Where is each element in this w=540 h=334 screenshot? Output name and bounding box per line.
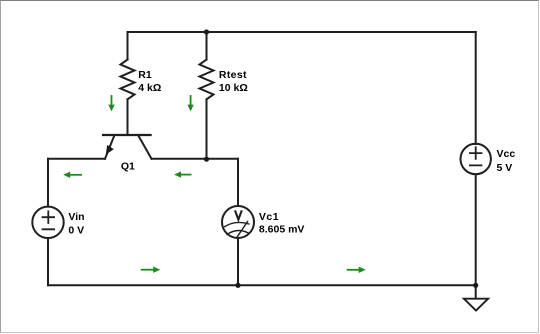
svg-text:Vcc: Vcc bbox=[497, 148, 516, 160]
svg-text:10 kΩ: 10 kΩ bbox=[219, 82, 248, 94]
svg-text:Vin: Vin bbox=[68, 211, 84, 223]
svg-text:Rtest: Rtest bbox=[219, 69, 247, 81]
svg-text:R1: R1 bbox=[138, 69, 152, 81]
svg-text:4 kΩ: 4 kΩ bbox=[138, 82, 161, 94]
svg-text:8.605 mV: 8.605 mV bbox=[259, 224, 305, 236]
svg-text:5 V: 5 V bbox=[497, 162, 513, 174]
svg-text:0 V: 0 V bbox=[68, 225, 84, 237]
svg-text:Vc1: Vc1 bbox=[259, 211, 279, 223]
svg-text:Q1: Q1 bbox=[121, 161, 135, 173]
